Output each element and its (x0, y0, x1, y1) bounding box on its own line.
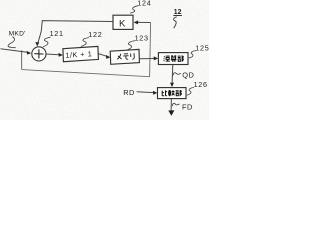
wire: top segment from vertical riser into K box right side (138, 21, 151, 23)
label 12 (underlined figure reference) (173, 9, 182, 16)
arrowhead into summing junction left (27, 51, 32, 55)
arrowhead into comparator left (153, 91, 158, 95)
kanji kaku (168, 90, 174, 96)
junction node on input wire (21, 51, 23, 53)
svg-text:121: 121 (50, 29, 64, 38)
block computing unit 演算部 (125) (158, 53, 188, 65)
kanji bu (178, 56, 184, 62)
block comparator 比較部 (126) (158, 88, 187, 99)
wire: MKD' input line into summing junction (1, 49, 29, 53)
leader squiggle for 123 (126, 41, 135, 51)
wire: RD input into comparator (137, 91, 154, 94)
leader squiggle for 12 (174, 17, 177, 28)
wire: computing unit output down to comparator (171, 65, 174, 84)
arrowhead FD output (large filled) (168, 110, 174, 116)
svg-text:125: 125 (195, 43, 209, 52)
wire: bottom horizontal run to right then up to K input level (22, 23, 151, 77)
arrowhead into comparator top (170, 83, 174, 88)
block 1/K+1 (122) (63, 46, 99, 61)
svg-text:124: 124 (137, 0, 151, 7)
svg-text:1/K + 1: 1/K + 1 (65, 49, 92, 60)
leader squiggle for MKD' (8, 37, 16, 48)
svg-text:RD: RD (123, 88, 135, 97)
katakana me (117, 54, 122, 60)
kanji hi (162, 90, 167, 95)
wire: K output feedback to summing junction top (38, 21, 113, 44)
arrowhead down into summing junction top (35, 42, 39, 46)
katakana mo (123, 54, 128, 60)
arrowhead into 1/K+1 left (58, 53, 63, 57)
node FD tap squiggle (172, 103, 179, 106)
svg-text:126: 126 (194, 80, 208, 89)
leader squiggle for 124 (130, 6, 138, 13)
katakana ri (131, 53, 135, 59)
svg-text:QD: QD (182, 71, 194, 80)
wire: summing junction output to 1/K+1 (46, 53, 59, 56)
svg-text:FD: FD (182, 102, 193, 111)
svg-text:123: 123 (135, 33, 149, 42)
arrowhead into memory left (106, 55, 110, 59)
kanji bu (2) (176, 90, 182, 96)
svg-text:K: K (119, 18, 126, 29)
svg-text:122: 122 (88, 30, 102, 39)
leader squiggle for 126 (187, 88, 194, 96)
kanji san (171, 55, 177, 62)
svg-text:MKD': MKD' (9, 30, 26, 37)
kanji en (164, 56, 170, 61)
wire: memory output to computing unit with junction at riser (139, 58, 153, 60)
wire: branch down from input at x=21.5 (21, 51, 23, 70)
wire: 1/K+1 output to memory (98, 54, 106, 57)
leader squiggle for 125 (189, 51, 196, 59)
arrowhead into K box right side (134, 20, 139, 24)
wire: comparator output down (FD) (170, 99, 172, 111)
arrowhead into computing unit left (154, 56, 159, 60)
block K (124) (113, 15, 133, 29)
leader squiggle for 121 (43, 37, 50, 47)
block memory メモリ (123) (110, 49, 139, 64)
leader squiggle for 122 (81, 38, 89, 47)
summing junction 121 (circle with plus) (32, 47, 46, 61)
node QD tap squiggle (172, 73, 180, 76)
